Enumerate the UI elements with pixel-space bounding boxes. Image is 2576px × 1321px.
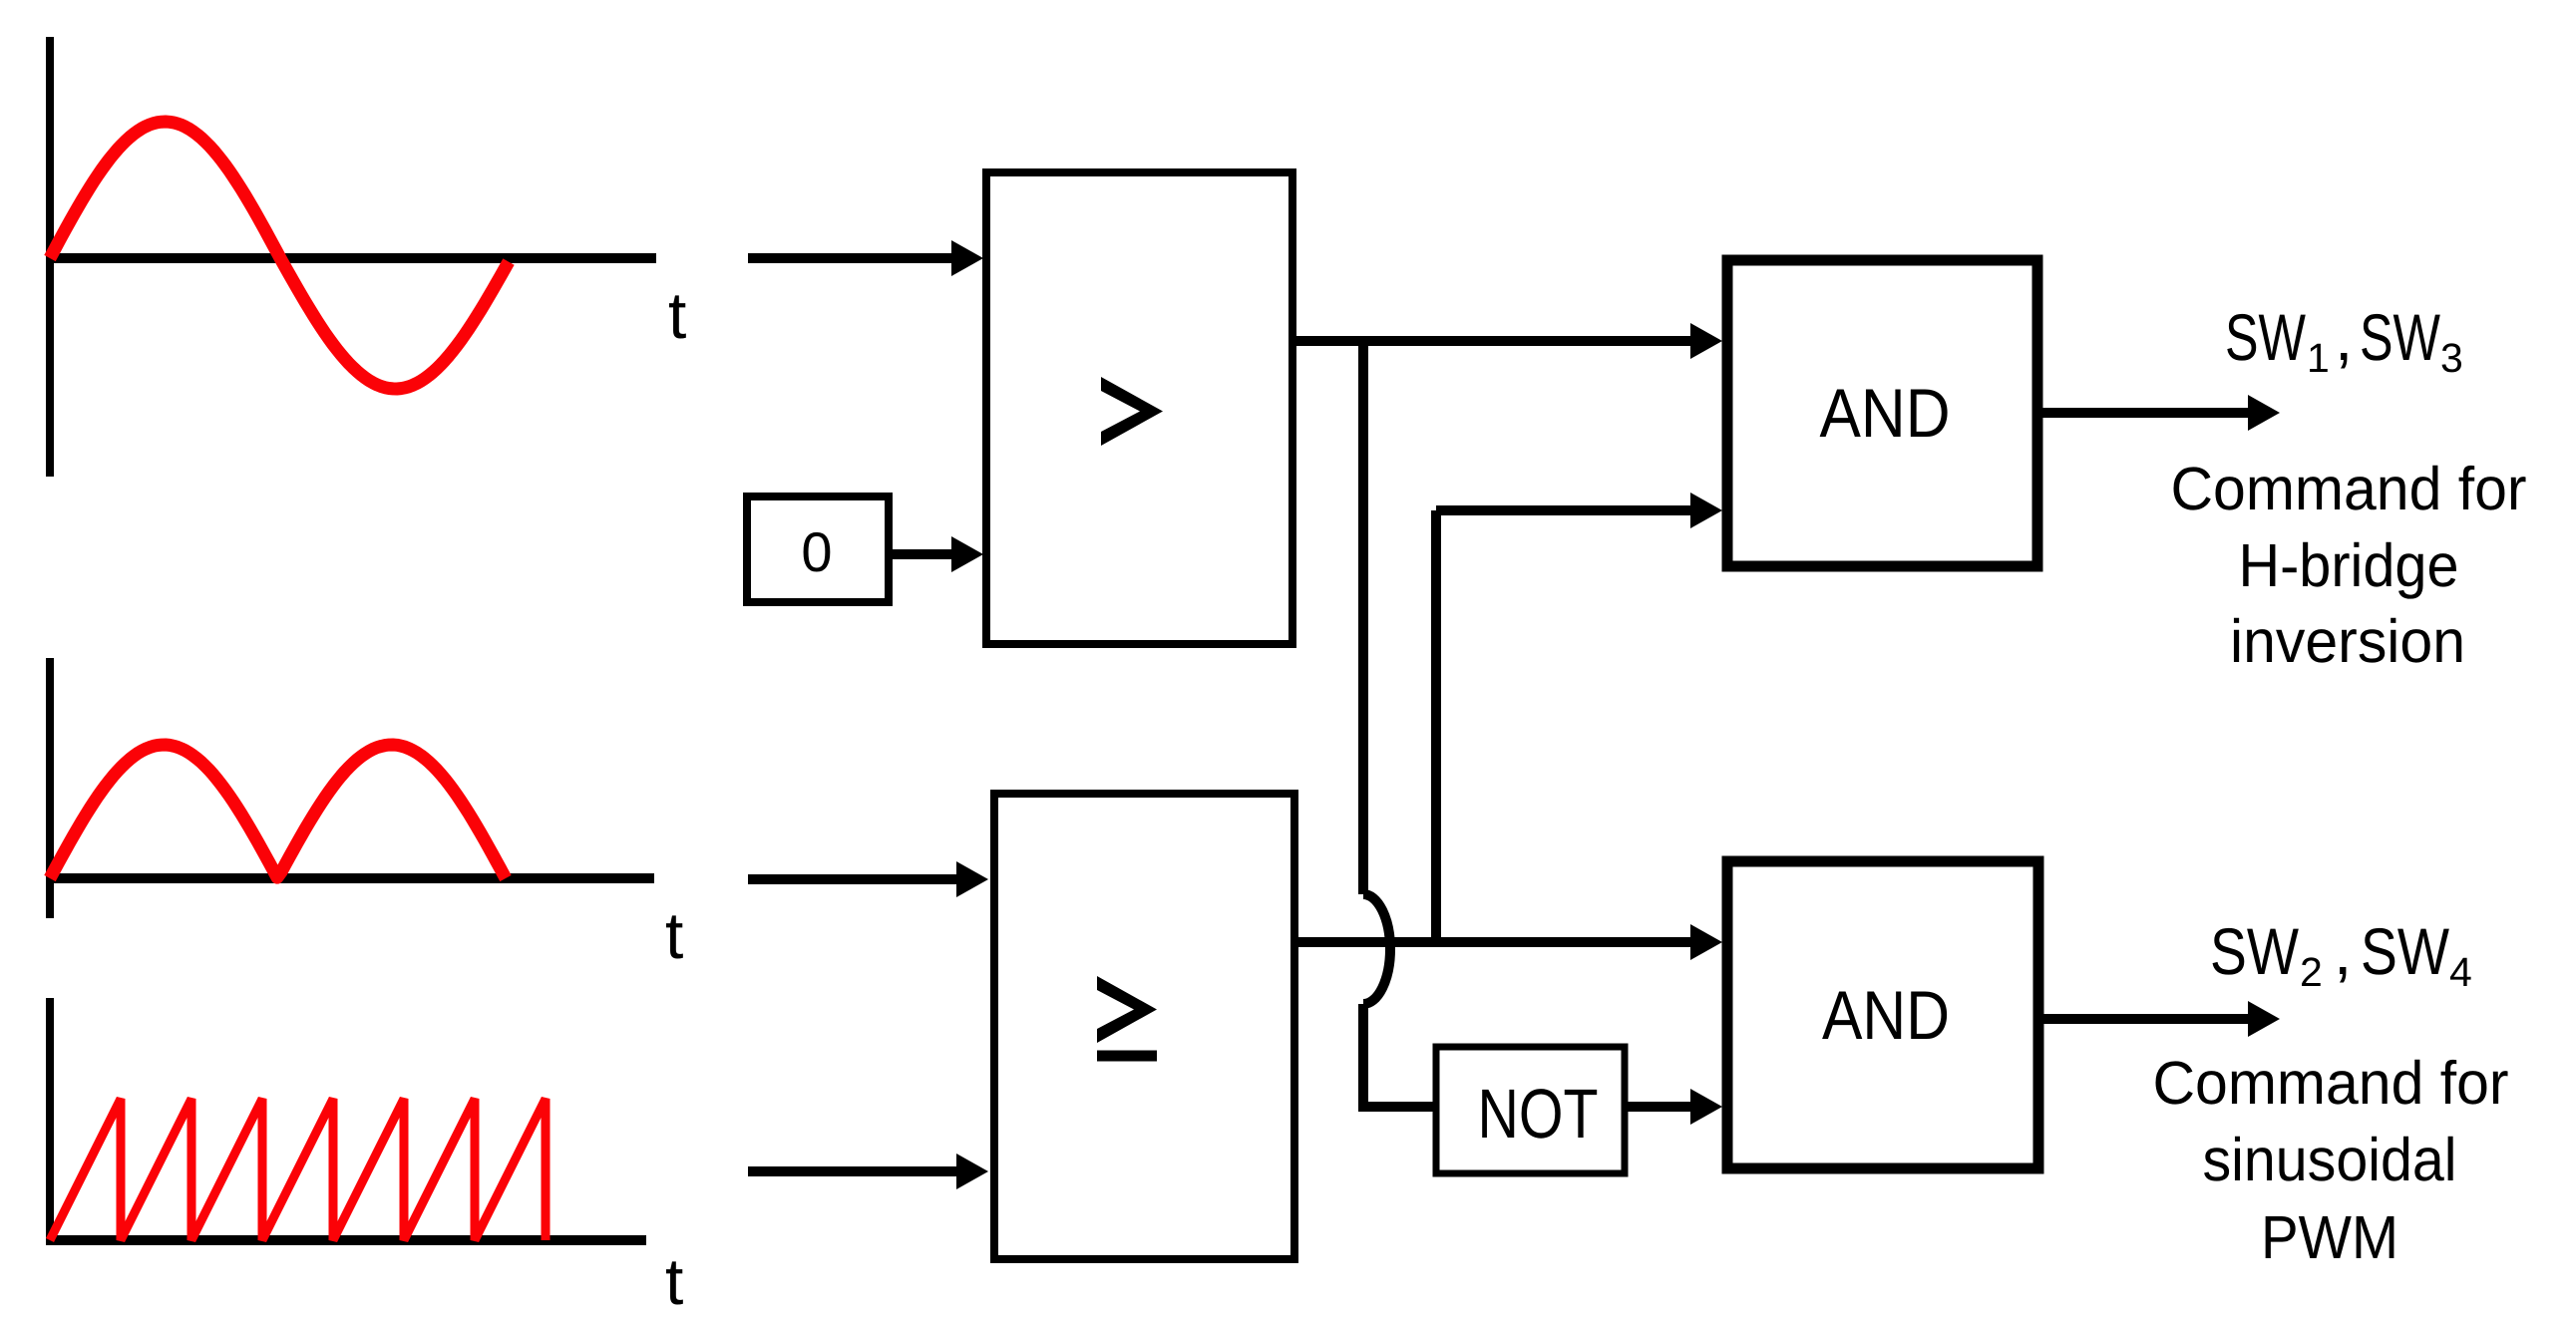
wire sine input to comparator > [748, 253, 953, 263]
arrowhead rectified input [956, 861, 988, 897]
arrowhead AND2 output [2248, 1001, 2280, 1037]
NOT gate block [1436, 1047, 1625, 1173]
svg-text:SW: SW [2360, 300, 2441, 374]
plot3 y-axis [46, 998, 54, 1244]
svg-text:PWM: PWM [2261, 1203, 2398, 1271]
wire comparator > output to AND1 [1292, 336, 1693, 346]
wire to AND1 input2 [1436, 505, 1693, 515]
constant block 0 [747, 496, 889, 602]
plot2 x-axis [46, 873, 654, 883]
arrowhead sine input [951, 240, 983, 276]
svg-text:2: 2 [2300, 949, 2323, 995]
AND gate block AND1 [1727, 260, 2037, 566]
rectified sine waveform [50, 745, 506, 878]
svg-text:inversion: inversion [2230, 607, 2465, 675]
svg-text:Command for: Command for [2171, 455, 2527, 522]
wire hop over >= output [1363, 894, 1390, 1004]
svg-text:4: 4 [2449, 949, 2472, 995]
wire down to NOT level [1358, 1004, 1368, 1112]
wire NOT output to AND2 [1625, 1102, 1693, 1112]
svg-text:NOT: NOT [1478, 1075, 1599, 1153]
arrowhead sawtooth input [956, 1154, 988, 1189]
arrowhead AND2 input1 [1690, 924, 1722, 960]
wire rectified sine input to comparator >= [748, 874, 958, 884]
plot1 x-axis [46, 253, 656, 263]
svg-text:sinusoidal: sinusoidal [2203, 1126, 2457, 1193]
wire AND2 output [2038, 1014, 2250, 1024]
arrowhead AND1 output [2248, 395, 2280, 431]
sine reference waveform [50, 122, 509, 389]
symbol >= chevron [1097, 976, 1157, 1043]
svg-text:SW: SW [2225, 300, 2307, 374]
arrowhead AND1 input1 [1690, 323, 1722, 359]
arrowhead 0 input [951, 536, 983, 572]
wire 0 to comparator > [890, 549, 953, 559]
svg-text:SW: SW [2210, 914, 2300, 988]
wire sawtooth input to comparator >= [748, 1166, 958, 1176]
svg-text:SW: SW [2361, 914, 2450, 988]
svg-text:1: 1 [2307, 335, 2330, 381]
wire into NOT [1358, 1102, 1436, 1112]
wire branch up from >= output node [1431, 510, 1441, 942]
svg-text:,: , [2334, 914, 2352, 988]
svg-text:H-bridge: H-bridge [2239, 531, 2459, 599]
svg-text:t: t [668, 278, 686, 352]
symbol >= underline [1097, 1051, 1157, 1062]
wire comparator >= output to AND2 [1294, 937, 1693, 947]
plot1 y-axis [46, 37, 54, 477]
svg-text:0: 0 [801, 520, 832, 583]
sawtooth carrier waveform [50, 1099, 546, 1240]
svg-text:,: , [2335, 300, 2353, 374]
svg-text:AND: AND [1820, 375, 1951, 452]
svg-text:t: t [665, 1244, 683, 1318]
arrowhead AND2 input2 [1690, 1089, 1722, 1125]
arrowhead AND1 input2 [1690, 493, 1722, 528]
svg-text:t: t [665, 898, 683, 972]
comparator block >= (U2) [994, 794, 1294, 1259]
svg-text:3: 3 [2440, 335, 2463, 381]
comparator block > (U1) [986, 172, 1292, 644]
wire branch down from > output node [1358, 341, 1368, 894]
symbol > [1101, 377, 1163, 446]
svg-text:AND: AND [1822, 977, 1950, 1054]
wire AND1 output [2037, 408, 2250, 418]
plot3 x-axis [46, 1235, 646, 1245]
plot2 y-axis [46, 658, 54, 918]
AND gate block AND2 [1727, 861, 2038, 1168]
svg-text:Command for: Command for [2153, 1049, 2509, 1117]
